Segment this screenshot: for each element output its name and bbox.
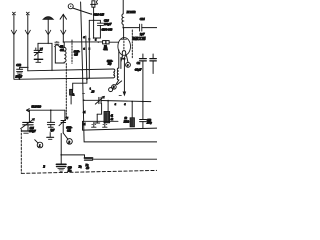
svg-text:15kΩ: 15kΩ [124,121,130,124]
svg-text:M 1972: M 1972 [126,10,136,14]
svg-text:¼ 29029: ¼ 29029 [32,105,42,109]
svg-text:C14: C14 [140,17,145,21]
svg-text:6238-003: 6238-003 [102,28,113,32]
svg-text:C12: C12 [16,63,21,67]
svg-text:44A: 44A [59,49,64,52]
svg-text:47A: 47A [102,48,107,51]
svg-text:E: E [42,165,45,168]
svg-text:6026-015: 6026-015 [93,13,104,17]
svg-text:7pF: 7pF [50,129,54,132]
svg-text:½ECC85: ½ECC85 [133,37,146,41]
svg-text:Ca: Ca [137,61,141,65]
svg-text:380pF: 380pF [28,130,36,133]
svg-text:4.9pF: 4.9pF [134,67,142,71]
svg-text:100pF: 100pF [104,22,112,26]
svg-text:150pF: 150pF [15,76,22,79]
svg-text:23: 23 [91,89,95,93]
svg-text:200p: 200p [146,122,153,125]
svg-text:1pF: 1pF [140,32,145,36]
svg-text:2.: 2. [72,94,75,97]
